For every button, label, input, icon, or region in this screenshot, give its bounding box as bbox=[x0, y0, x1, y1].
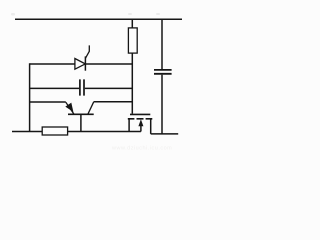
svg-text:www.dziuchi.icu.com: www.dziuchi.icu.com bbox=[111, 146, 172, 152]
